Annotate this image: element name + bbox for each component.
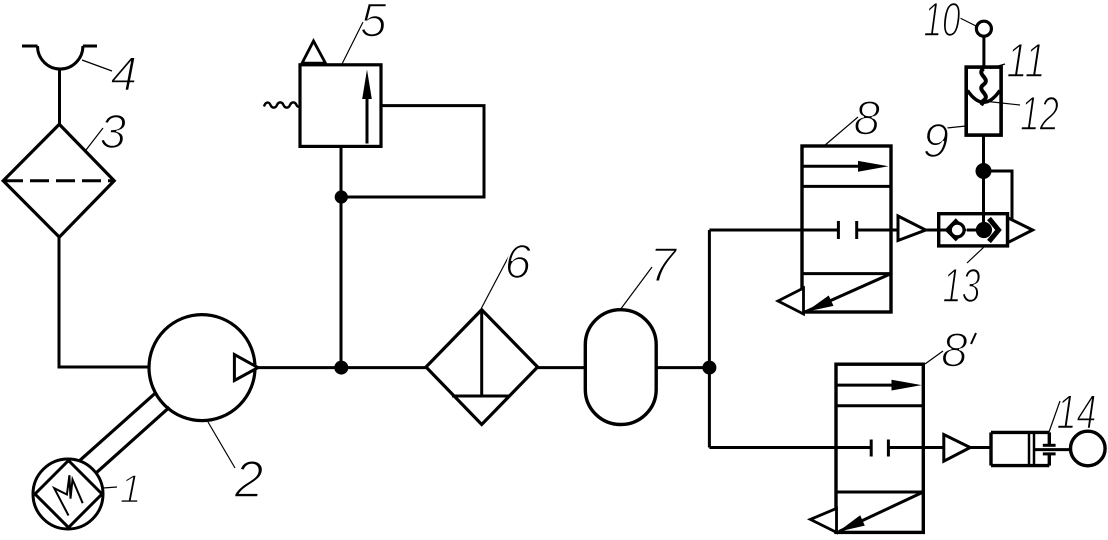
svg-text:10: 10 xyxy=(924,0,961,47)
wire to cylinder xyxy=(970,446,992,449)
wire nozzle to unit 9 xyxy=(982,35,985,68)
wire valve8' out xyxy=(923,446,944,449)
svg-text:13: 13 xyxy=(943,260,981,313)
wire valve8 out xyxy=(891,229,898,232)
leader 10 xyxy=(958,17,976,26)
leader 8' xyxy=(925,351,943,364)
svg-text:8: 8 xyxy=(941,325,968,378)
svg-text:1: 1 xyxy=(120,468,142,512)
wire valve5 drain xyxy=(340,146,343,367)
junction dot pilot xyxy=(335,190,348,203)
cylinder 14 xyxy=(991,432,1071,465)
relief valve 5 xyxy=(264,41,381,146)
wire to block 13 xyxy=(926,229,940,232)
receiver 7 xyxy=(585,310,656,425)
svg-text:8: 8 xyxy=(854,93,881,146)
svg-text:9: 9 xyxy=(923,115,950,168)
leader 2 xyxy=(208,422,235,468)
leader 14 xyxy=(1049,401,1060,432)
leader 12 xyxy=(988,102,1020,106)
leader 13 xyxy=(967,247,984,263)
wire branch to valve 8' xyxy=(709,446,837,449)
flow triangle after valve 8' xyxy=(944,435,970,462)
wire branch vertical xyxy=(708,230,711,448)
junction dot distribution xyxy=(702,361,716,375)
valve 8' xyxy=(810,364,923,532)
throttle-check block 13 xyxy=(939,214,1008,246)
leader 7 xyxy=(620,267,652,310)
svg-text:3: 3 xyxy=(100,106,127,159)
pump 2 xyxy=(149,315,258,421)
leader 9 xyxy=(947,126,966,128)
wire filter to receiver xyxy=(538,366,586,369)
svg-text:11: 11 xyxy=(1007,35,1046,88)
leader 3 xyxy=(86,128,103,150)
leader 4 xyxy=(82,60,112,71)
svg-text:2: 2 xyxy=(234,451,264,509)
wire loop to triangle xyxy=(984,171,1013,219)
wire nozzle line xyxy=(982,135,985,226)
svg-text:7: 7 xyxy=(650,239,679,292)
svg-text:12: 12 xyxy=(1020,88,1059,141)
motor 1 xyxy=(33,459,103,529)
roller xyxy=(1071,431,1106,466)
junction dot main line xyxy=(334,361,348,375)
leader 5 xyxy=(342,22,363,64)
leader 1 xyxy=(103,487,117,488)
junction dot nozzle line xyxy=(976,163,992,179)
leader 8 xyxy=(824,117,858,146)
nozzle 10 xyxy=(976,21,991,36)
wire suction line xyxy=(59,236,150,367)
svg-text:6: 6 xyxy=(505,236,532,289)
svg-text:5: 5 xyxy=(360,0,387,48)
valve 8 xyxy=(778,146,891,314)
svg-text:4: 4 xyxy=(111,49,138,102)
wire main pressure line xyxy=(255,366,427,369)
filter 6 xyxy=(426,310,538,425)
shaft xyxy=(77,392,170,474)
wire receiver to junction xyxy=(656,366,711,369)
pilot loop wire xyxy=(347,106,484,197)
damper unit 9 xyxy=(966,67,1001,135)
leader 11 xyxy=(990,64,1005,69)
svg-text:14: 14 xyxy=(1057,387,1097,440)
apostrophe of 8' xyxy=(971,333,976,344)
leader 6 xyxy=(482,254,511,308)
intake strainer 4 xyxy=(22,46,97,126)
filter 3 xyxy=(3,124,114,237)
wire branch to valve 8 xyxy=(709,229,803,232)
flow triangle after valve 8 xyxy=(898,216,926,241)
out triangle of block 13 xyxy=(1008,218,1033,243)
